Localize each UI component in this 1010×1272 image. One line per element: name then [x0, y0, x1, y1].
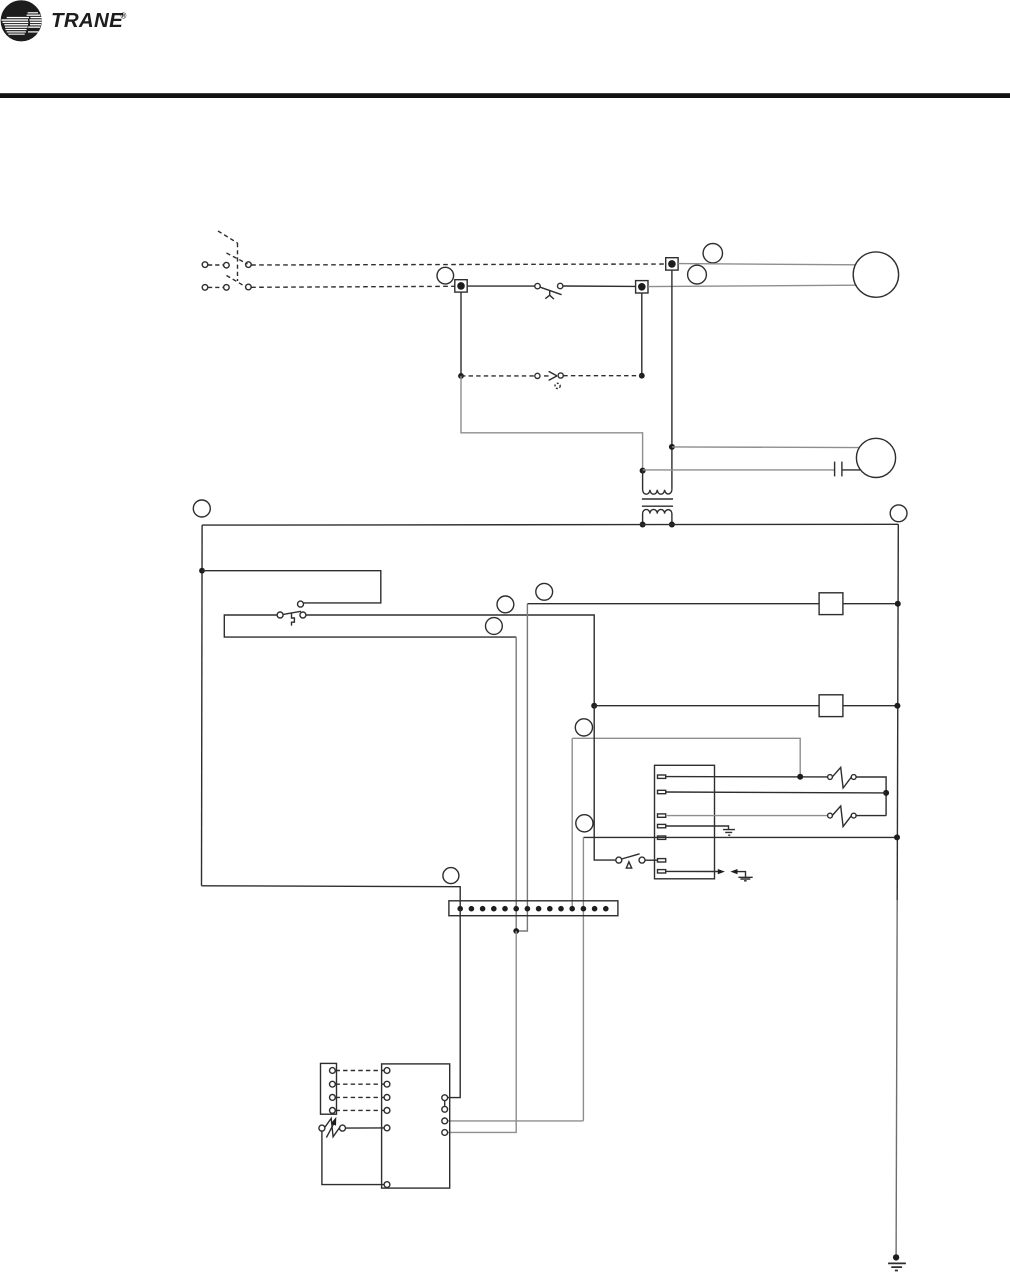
balloon node circle — [437, 267, 454, 284]
wire to run capacitor — [643, 469, 835, 471]
wire S2 down — [641, 293, 643, 376]
balloon node circle — [575, 719, 592, 736]
fuse terminal S1 — [455, 280, 467, 292]
plug pin 1 — [330, 1068, 336, 1074]
fuse terminal S2 — [636, 281, 648, 293]
wire S3 to motor M1 — [678, 264, 856, 265]
box terminal T2 — [658, 790, 666, 793]
run capacitor — [835, 462, 861, 477]
wire S2 to motor M1 — [648, 285, 856, 286]
connector right pin 2 — [442, 1106, 448, 1112]
right ground rail lower — [896, 900, 897, 1257]
wire T7 to plug — [666, 870, 718, 872]
right ground rail upper — [897, 524, 898, 900]
chassis ground — [723, 830, 735, 836]
jumper pin1 to pin2 — [444, 1101, 446, 1107]
dashed plug wires — [336, 1071, 385, 1111]
wire heater feed to strip — [571, 738, 573, 908]
wire plug to ground — [738, 872, 746, 877]
transformer T1 primary — [643, 471, 672, 495]
box terminal T7 — [658, 870, 666, 873]
heater limit element 2 — [828, 806, 887, 827]
svg-text:TRANE: TRANE — [51, 9, 124, 32]
terminal strip — [449, 901, 618, 916]
wire resistor to pin 5 — [346, 1127, 385, 1129]
node junction dot — [894, 834, 900, 840]
node junction dot ground — [893, 1254, 899, 1260]
wire T5 vertical — [582, 837, 584, 1121]
Trane logo wordmark — [51, 9, 127, 32]
balloon node circle — [703, 244, 722, 263]
low voltage connector box — [382, 1064, 450, 1188]
plug arrow left — [730, 869, 737, 874]
dashed line L2 to terminal S1 — [251, 286, 455, 287]
plug pin 3 — [330, 1095, 336, 1101]
wire thermostat left loop — [224, 615, 516, 637]
balloon node circle — [486, 618, 503, 635]
wire T5 long to rail — [583, 836, 897, 838]
node junction dot — [639, 373, 645, 379]
node junction dot — [669, 444, 675, 450]
svg-text:®: ® — [121, 12, 127, 21]
plug pin 2 — [330, 1081, 336, 1087]
heater limit element 1 — [828, 767, 857, 788]
pressure switch — [535, 283, 563, 299]
connector right pin 4 — [442, 1130, 448, 1136]
wire rail to thermostat NO — [202, 571, 381, 603]
balloon node circle — [193, 500, 210, 517]
wire S1 to switch — [467, 285, 535, 287]
header rule bar — [0, 93, 1010, 98]
dashed interlock wire — [461, 375, 642, 377]
wire S3 down to transformer — [671, 270, 673, 490]
wire strip to connector pin 1 — [448, 909, 461, 1098]
wire heater feed down — [572, 738, 800, 776]
terminal strip dots — [457, 906, 608, 912]
node junction dot — [458, 373, 464, 379]
wire T4 to chassis ground — [666, 826, 729, 829]
transformer T1 core — [642, 499, 673, 506]
box terminal T6 — [658, 859, 666, 862]
plug housing box — [321, 1063, 337, 1114]
wire to transformer primary — [461, 376, 643, 471]
wire coil1 feed — [527, 603, 819, 605]
Trane logo circle — [1, 0, 42, 41]
wire T2 — [666, 791, 886, 794]
contactor coil box 2 — [819, 695, 843, 717]
balloon node circle — [497, 596, 514, 613]
motor M2 — [856, 438, 895, 477]
wire element1 to element2 — [856, 777, 886, 816]
connector right pin 1 — [442, 1095, 448, 1101]
plug pin 4 — [330, 1108, 336, 1114]
connector left pin 5 — [384, 1125, 390, 1131]
box terminal T3 — [658, 814, 666, 817]
node junction dot — [640, 522, 646, 528]
heater control box — [655, 765, 715, 879]
connector left pin 1 — [384, 1068, 390, 1074]
chassis ground — [738, 877, 752, 881]
wire resistor to pin 6 — [322, 1131, 384, 1185]
balloon node circle — [576, 815, 593, 832]
wire rail to terminal strip — [202, 886, 461, 909]
disconnect switch (dashed, 2-pole) — [208, 231, 248, 287]
wire switch to S2 — [563, 285, 636, 287]
connector right pin 3 — [442, 1118, 448, 1124]
node junction dot — [199, 568, 205, 574]
earth ground — [888, 1263, 906, 1270]
wire T1 to heater element 1 — [666, 776, 828, 778]
balloon node circle — [890, 505, 907, 522]
left control rail — [201, 525, 204, 886]
box terminal T1 — [658, 775, 666, 778]
wire coil2 to rail — [843, 705, 898, 707]
anticipator resistor — [319, 1117, 346, 1138]
wire T5 branch to connector pin 3 — [448, 1120, 584, 1122]
node junction dot — [591, 703, 597, 709]
node junction dot — [883, 790, 889, 796]
wire coil1 node down — [516, 604, 527, 931]
node junction dot — [894, 703, 900, 709]
box terminal T5 — [658, 836, 666, 839]
node junction dot — [640, 468, 646, 474]
contactor coil box 1 — [819, 593, 843, 615]
limit switch — [616, 854, 645, 868]
wire coil1 to rail — [843, 603, 898, 605]
balloon node circle — [536, 583, 553, 600]
balloon node circle — [688, 265, 707, 284]
wire coil2 feed — [594, 705, 819, 707]
connector left pin 2 — [384, 1081, 390, 1087]
thermostat SPDT switch — [277, 611, 306, 625]
box terminal T4 — [658, 824, 666, 827]
node junction dot — [895, 601, 901, 607]
connector left pin 3 — [384, 1095, 390, 1101]
node junction dot — [669, 522, 675, 528]
wire thermostat common right — [306, 615, 594, 706]
connector left pin 6 — [384, 1182, 390, 1188]
thermostat heat contact — [298, 601, 304, 607]
wire to limit switch — [594, 706, 616, 860]
disconnect terminals — [202, 262, 251, 290]
wire strip node to connector pin 4 — [448, 931, 517, 1132]
node junction dot — [797, 774, 803, 780]
wire switch to T6 — [645, 859, 658, 861]
motor M1 — [853, 252, 898, 297]
wire thermostat node down — [515, 637, 517, 931]
dashed line L1 to terminal S3 — [251, 264, 666, 265]
wire T3 — [666, 815, 828, 817]
plug contact symbol — [535, 371, 564, 388]
connector left pin 4 — [384, 1108, 390, 1114]
fuse terminal S3 — [666, 258, 678, 270]
wire S1 down — [460, 292, 462, 376]
wire to motor M2 top — [672, 446, 860, 449]
24V supply rail — [202, 523, 898, 526]
node junction dot — [513, 928, 519, 934]
transformer T1 secondary — [643, 509, 672, 524]
plug arrow right — [718, 869, 725, 874]
balloon node circle — [443, 868, 459, 884]
